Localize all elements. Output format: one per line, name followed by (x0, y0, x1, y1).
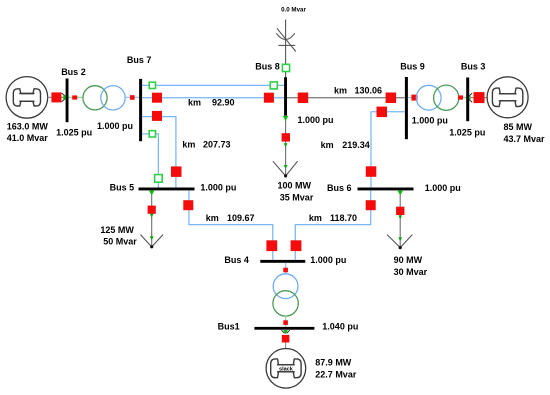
flow arrow at Bus 3 (466, 93, 473, 102)
svg-text:1.000 pu: 1.000 pu (298, 115, 334, 125)
wire line 7-5 circuit 2 (open) (142, 134, 158, 188)
svg-text:207.73: 207.73 (203, 140, 231, 150)
wire line 9-6 (371, 112, 405, 188)
svg-text:1.040 pu: 1.040 pu (322, 321, 358, 331)
svg-text:km: km (188, 97, 201, 107)
breaker line 7-8 ckt2 at Bus 8 (264, 93, 274, 103)
breaker T2 high side (411, 95, 417, 101)
breaker T3 high side (283, 268, 288, 273)
svg-text:22.7 Mvar: 22.7 Mvar (315, 369, 357, 379)
svg-text:1.000 pu: 1.000 pu (412, 115, 448, 125)
breaker line 8-9 at Bus 8 (298, 93, 309, 104)
svg-text:118.70: 118.70 (330, 213, 357, 223)
svg-text:30 Mvar: 30 Mvar (394, 267, 428, 277)
wire line 7-8 circuit 2 (142, 97, 284, 99)
wire T1 to Bus 7 (125, 96, 139, 98)
svg-text:Bus1: Bus1 (218, 321, 240, 331)
wire G2 to breaker (48, 96, 66, 98)
svg-text:Bus 5: Bus 5 (110, 183, 135, 193)
wire Bus 2 to transformer T1 (69, 96, 84, 98)
svg-text:Bus 8: Bus 8 (255, 62, 280, 72)
wire line 6-4 (295, 190, 370, 260)
breaker line 9-6 at Bus 6 (366, 166, 377, 177)
load at Bus 5 (140, 190, 163, 248)
breaker line 7-8 ckt1 at Bus 7 (open) (149, 82, 155, 88)
wire breaker to slack gen (285, 343, 287, 349)
breaker line 5-4 at Bus 4 (266, 240, 277, 251)
svg-text:1.025 pu: 1.025 pu (56, 127, 92, 137)
svg-text:130.06: 130.06 (355, 86, 383, 96)
svg-text:163.0 MW: 163.0 MW (7, 122, 49, 132)
svg-text:50 Mvar: 50 Mvar (103, 237, 137, 247)
breaker slack gen (closed) (282, 335, 290, 343)
svg-text:90 MW: 90 MW (394, 255, 423, 265)
svg-text:100 MW: 100 MW (278, 181, 312, 191)
wire line 7-8 circuit 1 (open) (142, 84, 284, 86)
svg-text:92.90: 92.90 (212, 97, 235, 107)
breaker T1 low side (72, 95, 77, 99)
bus Bus 4 (260, 260, 305, 263)
svg-text:0.0 Mvar: 0.0 Mvar (281, 6, 306, 13)
load at Bus 8 (273, 116, 298, 178)
breaker line 8-9 at Bus 9 (386, 93, 397, 104)
generator G3 circle (487, 77, 528, 118)
bus Bus 2 (66, 79, 69, 123)
svg-text:1.000 pu: 1.000 pu (310, 255, 346, 265)
svg-text:slack: slack (279, 366, 294, 372)
breaker G3 (closed) (474, 92, 485, 103)
wire Bus 4 to transformer T3 (285, 263, 287, 274)
svg-text:Bus 2: Bus 2 (61, 67, 86, 77)
svg-text:1.000 pu: 1.000 pu (200, 183, 236, 193)
transformer T3 (273, 274, 298, 316)
svg-text:1.000 pu: 1.000 pu (425, 183, 461, 193)
svg-text:km: km (182, 140, 195, 150)
svg-text:41.0 Mvar: 41.0 Mvar (7, 133, 49, 143)
bus Bus 9 (405, 77, 408, 139)
transformer T2 (416, 85, 459, 110)
svg-text:1.000 pu: 1.000 pu (97, 121, 133, 131)
svg-text:Bus 4: Bus 4 (224, 255, 249, 265)
breaker line 7-8 ckt1 at Bus 8 (open) (270, 82, 277, 89)
generator G2 circle (6, 77, 48, 119)
breaker line 7-5 ckt2 at Bus 7 (open) (149, 131, 155, 137)
svg-text:km: km (334, 86, 347, 96)
svg-text:km: km (321, 140, 334, 150)
breaker line 6-4 at Bus 4 (291, 240, 302, 251)
breaker G2 (closed) (51, 92, 61, 102)
breaker line 7-5 ckt1 at Bus 5 (171, 166, 182, 177)
svg-text:1.025 pu: 1.025 pu (449, 127, 485, 137)
load at Bus 6 (387, 190, 412, 249)
bus Bus 7 (139, 79, 142, 141)
svg-text:109.67: 109.67 (227, 213, 255, 223)
shunt at Bus 8 (276, 20, 295, 78)
wire line 5-4 (189, 190, 273, 260)
bus Bus 5 (139, 188, 195, 191)
svg-text:Bus 7: Bus 7 (127, 55, 152, 65)
svg-text:85 MW: 85 MW (504, 122, 533, 132)
breaker line 5-4 at Bus 5 (183, 200, 193, 210)
svg-text:km: km (206, 213, 219, 223)
transformer T1 (83, 86, 125, 110)
flow arrow at Bus 2 (62, 93, 69, 102)
svg-text:125 MW: 125 MW (100, 225, 134, 235)
wire line 7-5 circuit 1 (142, 117, 176, 188)
flow arrow at Bus1 (282, 330, 290, 334)
svg-text:219.34: 219.34 (342, 140, 370, 150)
wire Bus 3 to G3 (469, 97, 487, 99)
breaker line 6-4 at Bus 6 (366, 200, 376, 210)
svg-text:Bus 9: Bus 9 (400, 62, 425, 72)
breaker line 7-8 ckt2 at Bus 7 (152, 93, 162, 103)
breaker shunt (open) (282, 64, 289, 71)
generator G1 slack circle (266, 349, 306, 389)
bus Bus 8 (284, 77, 287, 116)
bus Bus 3 (466, 78, 469, 122)
wire Bus 9 to transformer T2 (408, 97, 417, 99)
breaker T1 high side (130, 95, 135, 100)
wire line 8-9 (287, 97, 405, 99)
breaker T3 low side (283, 320, 288, 325)
bus Bus1 (254, 327, 314, 330)
wire T2 to Bus 3 (459, 97, 466, 99)
svg-text:87.9 MW: 87.9 MW (315, 357, 352, 367)
svg-text:35 Mvar: 35 Mvar (280, 193, 314, 203)
svg-text:km: km (309, 213, 322, 223)
breaker line 7-5 ckt2 at Bus 5 (open) (155, 175, 163, 183)
bus Bus 6 (358, 188, 414, 191)
wire T3 to Bus1 (285, 316, 287, 327)
breaker line 9-6 at Bus 9 (377, 107, 388, 118)
svg-text:Bus 6: Bus 6 (327, 183, 352, 193)
svg-text:43.7 Mvar: 43.7 Mvar (504, 134, 546, 144)
breaker line 7-5 ckt1 at Bus 7 (152, 111, 162, 121)
breaker T2 low side (458, 95, 463, 99)
svg-text:Bus 3: Bus 3 (461, 62, 486, 72)
